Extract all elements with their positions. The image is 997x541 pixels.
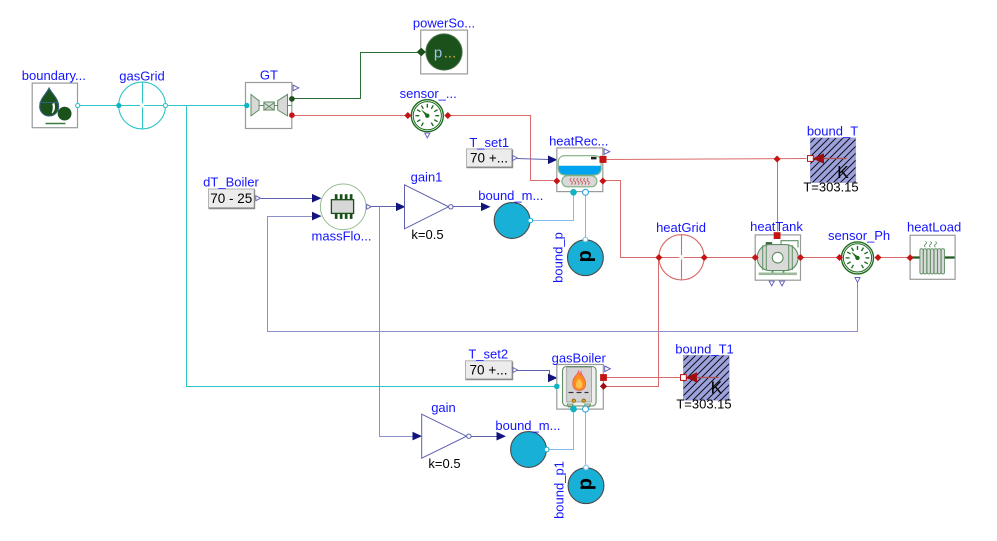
svg-text:powerSo...: powerSo...	[413, 16, 475, 31]
svg-text:T=303.15: T=303.15	[803, 179, 858, 194]
svg-text:gain: gain	[431, 400, 456, 415]
svg-text:p: p	[574, 250, 596, 262]
svg-text:bound_p1: bound_p1	[551, 461, 566, 519]
svg-text:gain1: gain1	[411, 170, 443, 185]
svg-text:heatGrid: heatGrid	[656, 220, 706, 235]
svg-text:gasBoiler: gasBoiler	[552, 351, 607, 366]
svg-text:70 +...: 70 +...	[470, 363, 508, 378]
svg-text:bound_T1: bound_T1	[675, 341, 734, 356]
svg-text:boundary...: boundary...	[22, 68, 86, 83]
svg-text:70 +...: 70 +...	[470, 151, 508, 166]
svg-text:K: K	[711, 377, 723, 397]
svg-text:bound_T: bound_T	[807, 124, 858, 139]
svg-text:k=0.5: k=0.5	[428, 456, 460, 471]
svg-text:heatLoad: heatLoad	[907, 220, 961, 235]
svg-text:T_set2: T_set2	[468, 347, 508, 362]
svg-text:GT: GT	[260, 68, 278, 83]
svg-text:sensor_Ph: sensor_Ph	[828, 228, 890, 243]
svg-text:p: p	[575, 478, 597, 490]
svg-text:dT_Boiler: dT_Boiler	[203, 175, 259, 190]
svg-text:sensor_...: sensor_...	[400, 86, 457, 101]
svg-text:p: p	[434, 45, 442, 62]
svg-text:heatRec...: heatRec...	[549, 133, 608, 148]
svg-text:T=303.15: T=303.15	[676, 396, 731, 411]
svg-text:gasGrid: gasGrid	[119, 68, 165, 83]
svg-text:70 - 25: 70 - 25	[210, 191, 252, 206]
svg-text:T_set1: T_set1	[469, 135, 509, 150]
svg-text:heatTank: heatTank	[750, 219, 803, 234]
svg-text:bound_m...: bound_m...	[478, 188, 543, 203]
svg-text:bound_p: bound_p	[550, 232, 565, 283]
svg-text:bound_m...: bound_m...	[495, 418, 560, 433]
svg-text:...: ...	[444, 45, 457, 62]
svg-text:k=0.5: k=0.5	[411, 227, 443, 242]
svg-text:massFlo...: massFlo...	[312, 229, 372, 244]
